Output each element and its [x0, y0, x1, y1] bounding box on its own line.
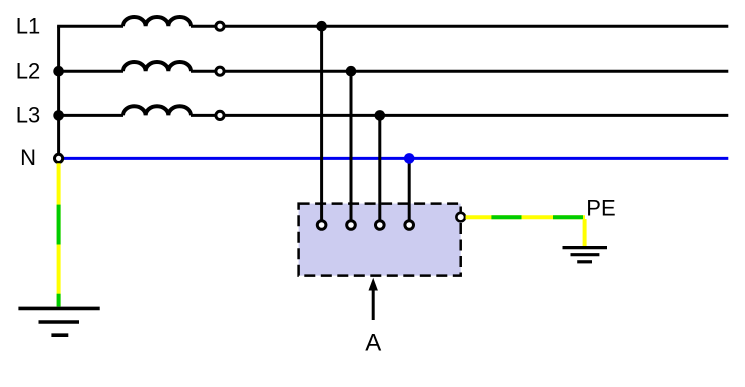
- node N terminal circle: [55, 154, 63, 162]
- junction dot L1: [316, 21, 327, 32]
- terminal circle L2: [216, 67, 224, 75]
- svg-text:A: A: [365, 329, 381, 356]
- wire PE horizontal yellow: [466, 215, 586, 219]
- wire N earthing green dash 2: [57, 294, 61, 307]
- pin circle 4 of device A: [405, 221, 414, 230]
- wire N line blue: [64, 157, 729, 160]
- wire PE green dash 1: [491, 215, 521, 219]
- svg-text:PE: PE: [586, 196, 615, 221]
- junction dot L3: [375, 110, 386, 121]
- wire N earthing vertical yellow: [57, 163, 61, 306]
- inductor winding L2: [123, 62, 191, 71]
- inductor winding L1: [123, 17, 191, 26]
- wire drop N to device A: [408, 158, 411, 225]
- svg-text:L3: L3: [16, 103, 40, 128]
- svg-text:N: N: [20, 145, 36, 170]
- wire PE green dash 2: [553, 215, 583, 219]
- wire L3 line: [59, 114, 729, 117]
- arrow pointer to device A: [369, 278, 378, 320]
- junction dot N blue: [404, 153, 415, 164]
- pin circle 2 of device A: [347, 221, 356, 230]
- pin circle PE of device A: [456, 213, 465, 222]
- svg-text:L2: L2: [16, 58, 40, 83]
- wire left vertical bus L1-N: [57, 26, 60, 153]
- wire PE vertical yellow: [583, 219, 587, 247]
- pin circle 1 of device A: [317, 221, 326, 230]
- wire N earthing green dash 1: [57, 205, 61, 245]
- wire drop L1 to device A: [320, 26, 323, 225]
- wire L2 line: [59, 70, 729, 73]
- pin circle 3 of device A: [376, 221, 385, 230]
- junction dot bus-L3: [53, 110, 64, 121]
- junction dot L2: [346, 66, 357, 77]
- terminal circle L1: [216, 22, 224, 30]
- svg-text:L1: L1: [16, 14, 40, 39]
- device A dashed box: [299, 204, 461, 276]
- wire drop L2 to device A: [350, 71, 353, 225]
- wire drop L3 to device A: [378, 115, 381, 225]
- wire L1 line: [57, 25, 728, 28]
- junction dot bus-L2: [53, 66, 64, 77]
- terminal circle L3: [216, 111, 224, 119]
- inductor winding L3: [123, 106, 191, 115]
- ground symbol left (system earth): [18, 308, 99, 335]
- ground symbol right (PE earth): [563, 248, 608, 262]
